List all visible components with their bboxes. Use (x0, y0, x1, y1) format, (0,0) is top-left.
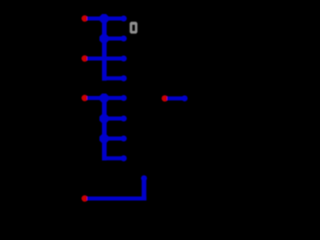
wire (104, 35, 127, 41)
wire (104, 135, 127, 141)
wire (167, 95, 188, 101)
wire (102, 96, 107, 161)
pin 2 (82, 55, 88, 61)
wire (104, 115, 127, 121)
wire (87, 55, 127, 61)
junction (99, 93, 108, 102)
wire (102, 17, 107, 81)
junction (99, 34, 108, 43)
junction (99, 14, 108, 23)
wire (87, 197, 146, 201)
wire (102, 155, 127, 161)
pin 4 (162, 95, 168, 101)
pin 1 (82, 15, 88, 21)
junction (99, 134, 108, 143)
pin 3 (82, 95, 88, 101)
pin 5 (82, 195, 88, 201)
wire (102, 75, 127, 81)
wire (87, 15, 127, 21)
wire (87, 95, 127, 101)
net label 0 (130, 22, 138, 34)
wire (141, 175, 147, 200)
junction (99, 114, 108, 123)
